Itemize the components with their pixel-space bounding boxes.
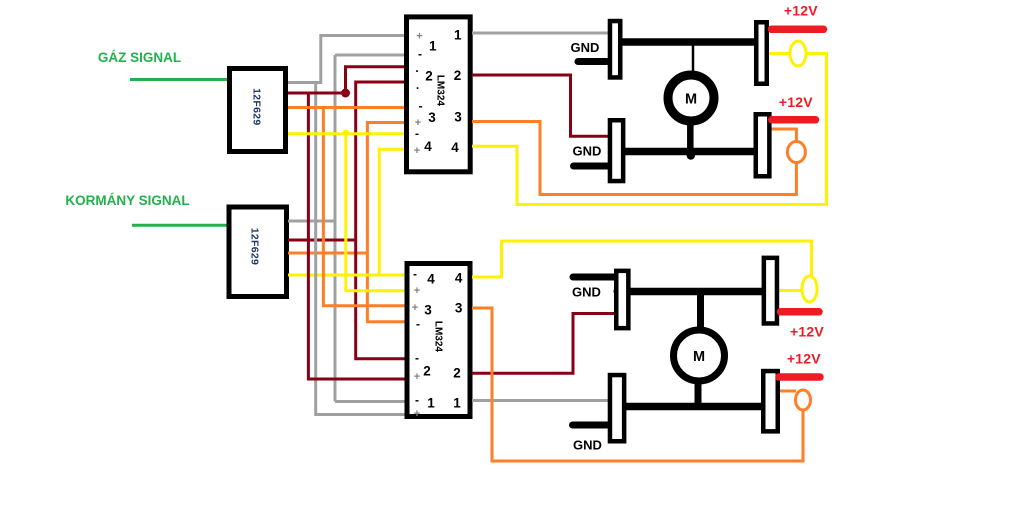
svg-text:-: - bbox=[415, 351, 419, 365]
svg-text:+: + bbox=[414, 408, 420, 420]
gnd stub Q1 bbox=[578, 58, 608, 65]
wire darkred U3 pin2 to Q2 bbox=[472, 75, 610, 136]
svg-text:GND: GND bbox=[572, 285, 601, 300]
svg-text:-: - bbox=[413, 267, 417, 281]
gnd stub Q6 bbox=[573, 422, 609, 429]
svg-text:+12V: +12V bbox=[784, 3, 818, 19]
wire orange U1 to LM324-1 pin3- bbox=[288, 106, 405, 109]
wire gray U1 branch down to LM324-2 pin1+ bbox=[316, 83, 405, 415]
+12V bar 3 bbox=[781, 308, 820, 316]
svg-text:4: 4 bbox=[451, 140, 459, 155]
svg-text:1: 1 bbox=[453, 396, 461, 411]
gnd stub Q2 bbox=[574, 163, 609, 170]
wire gray U4 pin1 to Q6 bbox=[472, 399, 610, 402]
wire orange U2 down to LM324-2 pin3- bbox=[367, 253, 405, 322]
svg-text:+: + bbox=[416, 31, 422, 43]
svg-text:LM324: LM324 bbox=[434, 75, 445, 107]
transistor Q3 bbox=[756, 114, 770, 176]
wire orange U3 pin3 loop bbox=[472, 122, 796, 195]
wire yellow lamp to Q4 bbox=[766, 52, 790, 55]
wire gray U2 vertical bbox=[334, 55, 337, 402]
wire orange U1 branch down to LM324-2 pin3+ bbox=[323, 108, 405, 306]
wire motor top thin bbox=[692, 42, 695, 73]
wire gray U2 out bbox=[288, 220, 335, 223]
svg-text:4: 4 bbox=[455, 271, 463, 286]
svg-text:+: + bbox=[414, 145, 420, 157]
op-amp U4 LM324 bottom bbox=[407, 264, 470, 417]
+12V bar 4 bbox=[779, 373, 820, 381]
transistor Q6 bbox=[610, 375, 624, 441]
wire yellow U2 branch up to LM324-1 pin4+ bbox=[379, 149, 405, 275]
wire gray U2 to LM324-2 pin1- bbox=[335, 400, 405, 403]
svg-text:3: 3 bbox=[424, 303, 432, 318]
bus bar bottom2 bbox=[625, 403, 763, 411]
wire gray U3 pin1 to Q1 bbox=[472, 32, 609, 35]
svg-text:-: - bbox=[418, 47, 422, 61]
wire yellow lamp to Q7 bbox=[778, 289, 802, 292]
wire motor2 top thick bbox=[697, 292, 704, 330]
wire darkred U1 to LM324-1 pin2 bbox=[288, 67, 405, 93]
wire darkred U1 branch down to LM324-2 pin2+ bbox=[308, 93, 405, 379]
svg-text:12F629: 12F629 bbox=[249, 228, 261, 265]
svg-text:1: 1 bbox=[429, 39, 437, 54]
bus bar bottom bbox=[623, 148, 755, 156]
svg-text:3: 3 bbox=[455, 301, 463, 316]
+12V bar 1 bbox=[772, 26, 824, 34]
wire yellow U2 to LM324-2 pin4- bbox=[288, 274, 405, 277]
junction dot motor-bar bbox=[687, 151, 695, 159]
wire darkred U2 up to LM324-1 pin2b bbox=[356, 82, 405, 240]
IC U2 12F629 bottom bbox=[229, 207, 287, 297]
lamp L3 yellow bbox=[802, 276, 817, 302]
junction bump yellow bbox=[343, 130, 349, 136]
lamp L1 yellow bbox=[790, 41, 806, 66]
wire gray U1 to LM324-1 pin1+ bbox=[288, 36, 405, 83]
wire green kormany input bbox=[132, 224, 228, 227]
svg-text:4: 4 bbox=[427, 272, 435, 287]
U4 pin numbers bbox=[423, 271, 463, 411]
svg-text:-: - bbox=[415, 127, 419, 141]
motor M2 bbox=[674, 330, 725, 381]
lamp L4 orange bbox=[796, 390, 811, 410]
U3 pin numbers bbox=[424, 28, 462, 156]
transistor Q5 bbox=[616, 271, 628, 328]
wire orange lamp to Q8 bbox=[779, 390, 797, 393]
svg-text:M: M bbox=[685, 92, 697, 108]
wire orange lamp to Q3 bbox=[770, 129, 796, 142]
wire motor2 bottom thick bbox=[695, 382, 702, 407]
svg-text:LM324: LM324 bbox=[433, 321, 444, 353]
svg-text:+: + bbox=[414, 285, 420, 297]
junction dot bar-Q8 bbox=[762, 403, 770, 411]
junction dot darkred bbox=[341, 89, 350, 98]
svg-text:.: . bbox=[415, 61, 418, 75]
U3 pin marks left bbox=[414, 31, 423, 158]
svg-text:GND: GND bbox=[573, 144, 602, 159]
svg-text:GÁZ SIGNAL: GÁZ SIGNAL bbox=[98, 50, 181, 65]
+12V bar 2 bbox=[772, 116, 816, 124]
svg-text:.: . bbox=[416, 78, 419, 92]
bus bar top bbox=[620, 38, 756, 46]
svg-text:12F629: 12F629 bbox=[250, 88, 262, 125]
wire orange U4 pin3 loop bbox=[472, 308, 803, 461]
transistor Q1 bbox=[610, 21, 620, 77]
svg-text:2: 2 bbox=[453, 366, 461, 381]
op-amp U3 LM324 top bbox=[407, 17, 471, 172]
motor M1 bbox=[668, 75, 714, 121]
junction dot bar-Q5 bbox=[614, 288, 622, 296]
svg-text:1: 1 bbox=[427, 396, 435, 411]
svg-text:2: 2 bbox=[423, 364, 431, 379]
svg-text:+: + bbox=[414, 371, 420, 383]
svg-text:KORMÁNY SIGNAL: KORMÁNY SIGNAL bbox=[65, 193, 189, 208]
transistor Q2 bbox=[610, 120, 623, 181]
svg-text:4: 4 bbox=[424, 139, 432, 154]
wire motor bottom thick bbox=[687, 122, 694, 150]
svg-text:-: - bbox=[419, 99, 423, 113]
transistor Q8 bbox=[763, 371, 778, 431]
wire yellow U1 to LM324-1 pin4- bbox=[288, 132, 405, 135]
svg-text:+12V: +12V bbox=[787, 351, 821, 367]
wire orange U2 out bbox=[288, 252, 367, 255]
wire yellow U4 pin4 loop bbox=[472, 241, 812, 277]
svg-text:+: + bbox=[412, 302, 418, 314]
svg-text:-: - bbox=[415, 393, 419, 407]
lamp L2 orange bbox=[787, 142, 805, 163]
wire darkred U2 down to LM324-2 pin2- bbox=[356, 240, 405, 359]
svg-text:2: 2 bbox=[454, 68, 462, 83]
svg-text:3: 3 bbox=[454, 110, 462, 125]
wire gray U2 to LM324-1 pin1- bbox=[335, 54, 405, 57]
svg-text:2: 2 bbox=[425, 69, 433, 84]
svg-text:3: 3 bbox=[428, 110, 436, 125]
wire darkred U2 out bbox=[288, 239, 356, 242]
svg-text:-: - bbox=[416, 317, 420, 331]
wire green gaz input bbox=[130, 78, 228, 81]
gnd stub Q5 bbox=[573, 274, 614, 281]
svg-text:1: 1 bbox=[454, 28, 462, 43]
svg-text:GND: GND bbox=[573, 438, 602, 453]
bus bar top2 bbox=[627, 288, 764, 296]
svg-text:GND: GND bbox=[571, 40, 600, 55]
svg-text:M: M bbox=[693, 349, 705, 365]
transistor Q7 bbox=[764, 258, 777, 324]
svg-text:+12V: +12V bbox=[790, 324, 824, 340]
svg-text:+12V: +12V bbox=[779, 94, 813, 110]
wire darkred U4 pin2 to Q5 bbox=[472, 314, 615, 374]
transistor Q4 bbox=[756, 22, 767, 84]
IC U1 12F629 top bbox=[230, 69, 286, 152]
U4 pin marks left bbox=[412, 285, 420, 420]
wire yellow U3 pin4 loop bbox=[472, 54, 827, 205]
wire orange U2 up to LM324-1 pin3+ bbox=[367, 123, 405, 254]
wire yellow U1 branch down to LM324-2 pin4+ bbox=[346, 134, 405, 291]
